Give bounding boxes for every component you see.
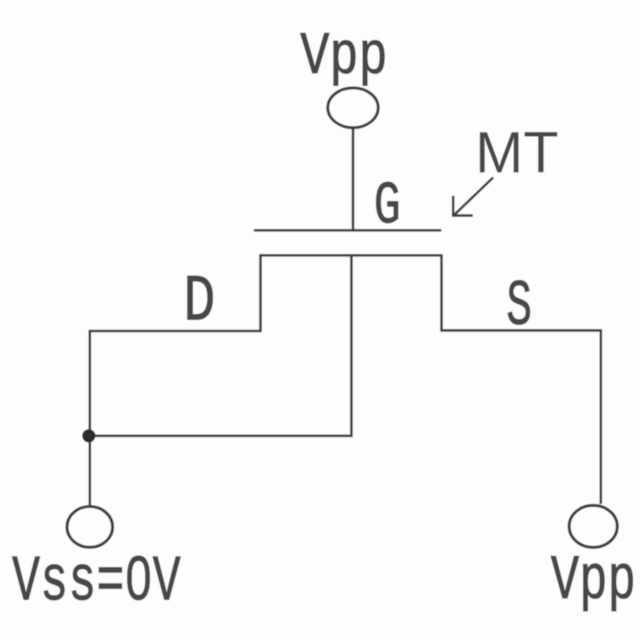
wire source to Vpp terminal: [442, 255, 601, 505]
svg-text:Vss=0V: Vss=0V: [12, 546, 181, 620]
svg-text:Vpp: Vpp: [551, 546, 636, 617]
terminal Vpp (bottom right): [569, 505, 617, 547]
wire gate lead: [352, 128, 355, 231]
svg-text:Vpp: Vpp: [300, 24, 388, 92]
wire drain to Vss node: [90, 255, 261, 506]
svg-text:D: D: [183, 265, 215, 340]
mask over mono zero center dot: [132, 570, 144, 585]
terminal Vpp (top): [328, 88, 378, 128]
transistor MT channel line: [259, 254, 442, 257]
svg-text:MT: MT: [475, 121, 558, 186]
wire body/substrate to node: [89, 255, 352, 436]
transistor MT gate line: [254, 229, 441, 232]
junction dot: [82, 429, 95, 442]
arrow pointing to MT gate: [453, 177, 493, 215]
terminal Vss: [67, 507, 113, 548]
svg-text:S: S: [506, 271, 532, 344]
